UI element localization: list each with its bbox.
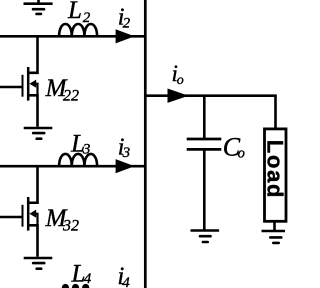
svg-text:o: o [177,73,184,88]
svg-text:3: 3 [82,142,91,158]
svg-text:4: 4 [84,271,92,287]
svg-text:Load: Load [263,140,288,199]
svg-text:3: 3 [122,145,131,161]
svg-text:32: 32 [62,217,79,234]
svg-text:L: L [67,0,82,24]
svg-text:o: o [238,146,245,162]
svg-text:2: 2 [83,10,91,26]
svg-text:4: 4 [122,275,130,288]
svg-text:22: 22 [63,87,79,104]
svg-text:2: 2 [123,16,131,32]
